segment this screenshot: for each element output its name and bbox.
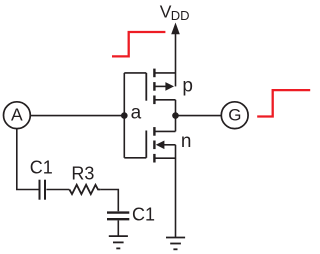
svg-text:p: p [182, 76, 193, 97]
svg-text:R3: R3 [71, 163, 94, 183]
wire C1 to R3 [46, 189, 69, 191]
svg-text:a: a [131, 103, 142, 124]
svg-text:DD: DD [171, 8, 190, 23]
input step waveform (red) [112, 32, 165, 56]
wire gate bus [124, 73, 146, 158]
transistor p (PMOS U1) [146, 69, 175, 116]
ground (right) [166, 238, 185, 250]
wire NMOS source to ground [175, 145, 177, 238]
svg-text:C1: C1 [30, 158, 53, 178]
ground (left) [109, 236, 128, 248]
probe G (circle) [221, 102, 248, 129]
wire C1 to ground [117, 220, 119, 236]
power VDD arrow [171, 23, 180, 87]
wire A down to C1 [17, 129, 40, 190]
svg-text:n: n [181, 131, 192, 152]
svg-text:A: A [11, 104, 23, 124]
output step waveform (red) [257, 90, 310, 116]
source A (circle) [4, 102, 31, 129]
node a junction dot [121, 112, 128, 119]
resistor R3 [69, 185, 100, 194]
wire A to node a [30, 115, 124, 117]
svg-text:G: G [228, 106, 241, 125]
transistor n (NMOS U2) [146, 116, 175, 163]
svg-text:C1: C1 [132, 204, 155, 224]
capacitor C1 (shunt) [107, 213, 129, 220]
label VDD [160, 1, 190, 23]
wire R3 to shunt C1 [100, 190, 118, 212]
output node dot [172, 112, 179, 119]
capacitor C1 (series) [40, 180, 46, 200]
wire output to G [176, 115, 222, 117]
